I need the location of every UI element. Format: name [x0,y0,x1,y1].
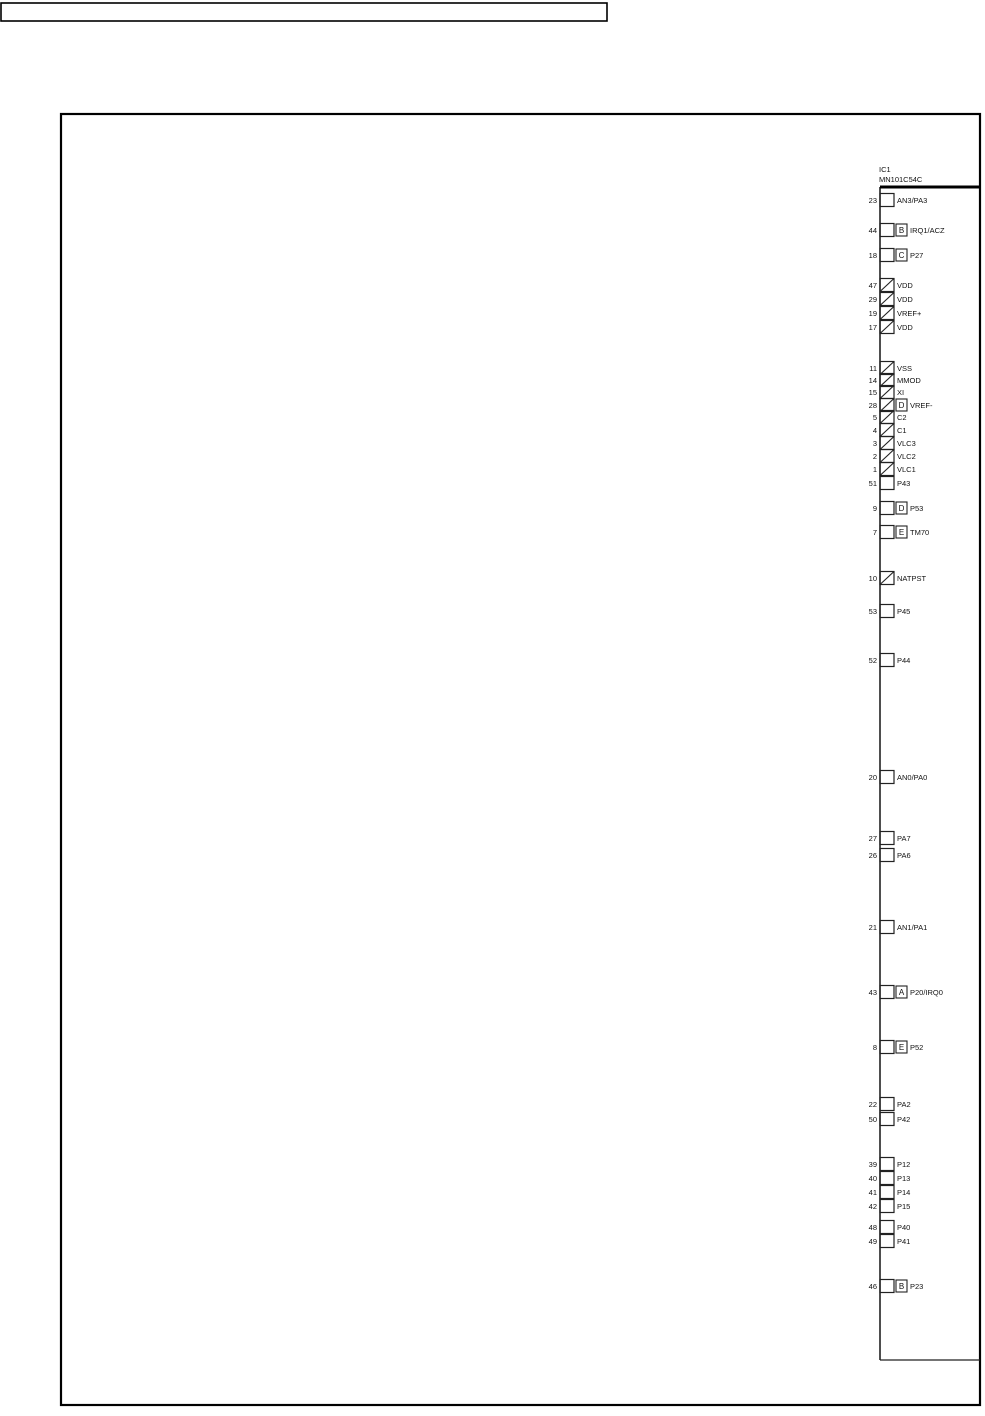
svg-text:P53: P53 [910,504,923,513]
svg-text:10: 10 [869,574,877,583]
svg-text:AN3/PA3: AN3/PA3 [897,196,927,205]
svg-text:8: 8 [873,1043,877,1052]
svg-text:VDD: VDD [897,281,913,290]
svg-text:P44: P44 [897,656,910,665]
svg-text:P42: P42 [897,1115,910,1124]
svg-text:47: 47 [869,281,877,290]
svg-text:48: 48 [869,1223,877,1232]
svg-text:44: 44 [869,226,877,235]
svg-text:VREF-: VREF- [910,401,933,410]
svg-text:MN101C54C: MN101C54C [879,175,923,184]
svg-text:26: 26 [869,851,877,860]
svg-text:2: 2 [873,452,877,461]
svg-text:17: 17 [869,323,877,332]
svg-text:P13: P13 [897,1174,910,1183]
svg-text:20: 20 [869,773,877,782]
svg-text:29: 29 [869,295,877,304]
svg-text:D: D [899,401,905,410]
svg-text:3: 3 [873,439,877,448]
svg-text:P23: P23 [910,1282,923,1291]
svg-text:40: 40 [869,1174,877,1183]
svg-text:1: 1 [873,465,877,474]
svg-text:21: 21 [869,923,877,932]
svg-text:B: B [899,226,904,235]
svg-text:VSS: VSS [897,364,912,373]
svg-text:PA6: PA6 [897,851,911,860]
svg-text:VDD: VDD [897,295,913,304]
svg-text:TM70: TM70 [910,528,929,537]
svg-text:AN1/PA1: AN1/PA1 [897,923,927,932]
svg-text:IRQ1/ACZ: IRQ1/ACZ [910,226,945,235]
svg-text:AN0/PA0: AN0/PA0 [897,773,927,782]
svg-text:19: 19 [869,309,877,318]
svg-text:P20/IRQ0: P20/IRQ0 [910,988,943,997]
svg-text:50: 50 [869,1115,877,1124]
svg-text:NATPST: NATPST [897,574,926,583]
svg-text:PA2: PA2 [897,1100,911,1109]
svg-text:A: A [899,988,905,997]
svg-text:49: 49 [869,1237,877,1246]
svg-text:41: 41 [869,1188,877,1197]
svg-text:53: 53 [869,607,877,616]
svg-text:VLC2: VLC2 [897,452,916,461]
svg-text:23: 23 [869,196,877,205]
svg-text:46: 46 [869,1282,877,1291]
svg-text:14: 14 [869,376,877,385]
svg-text:P45: P45 [897,607,910,616]
svg-text:27: 27 [869,834,877,843]
svg-text:51: 51 [869,479,877,488]
svg-text:B: B [899,1282,904,1291]
svg-text:VDD: VDD [897,323,913,332]
svg-text:E: E [899,528,904,537]
svg-text:P40: P40 [897,1223,910,1232]
svg-text:11: 11 [869,364,877,373]
svg-text:D: D [899,504,905,513]
svg-text:C2: C2 [897,413,907,422]
svg-text:XI: XI [897,388,904,397]
svg-text:P43: P43 [897,479,910,488]
svg-text:P27: P27 [910,251,923,260]
svg-text:MMOD: MMOD [897,376,921,385]
svg-text:C1: C1 [897,426,907,435]
svg-text:22: 22 [869,1100,877,1109]
svg-text:18: 18 [869,251,877,260]
svg-text:IC1: IC1 [879,165,891,174]
svg-text:P12: P12 [897,1160,910,1169]
svg-text:E: E [899,1043,904,1052]
svg-text:15: 15 [869,388,877,397]
svg-text:P41: P41 [897,1237,910,1246]
svg-text:5: 5 [873,413,877,422]
svg-text:39: 39 [869,1160,877,1169]
svg-text:P14: P14 [897,1188,910,1197]
svg-text:C: C [899,251,905,260]
svg-text:7: 7 [873,528,877,537]
svg-text:VLC1: VLC1 [897,465,916,474]
svg-text:52: 52 [869,656,877,665]
svg-text:VREF+: VREF+ [897,309,922,318]
svg-text:P15: P15 [897,1202,910,1211]
svg-text:42: 42 [869,1202,877,1211]
svg-text:9: 9 [873,504,877,513]
svg-text:P52: P52 [910,1043,923,1052]
svg-text:PA7: PA7 [897,834,911,843]
svg-text:4: 4 [873,426,877,435]
svg-text:43: 43 [869,988,877,997]
svg-text:28: 28 [869,401,877,410]
svg-text:VLC3: VLC3 [897,439,916,448]
